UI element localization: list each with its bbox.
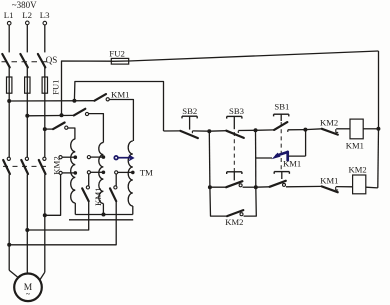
winding3 lower lead xyxy=(132,206,134,215)
contactor KM1 main contact pole3 xyxy=(53,123,68,130)
winding2 lower lead xyxy=(102,204,104,215)
switch QS pole 1 xyxy=(2,54,9,67)
terminal L3 xyxy=(40,10,50,25)
wire phase3 FU1 to KM2 xyxy=(44,93,46,157)
svg-text:~380V: ~380V xyxy=(12,0,37,10)
wire node to SB1 xyxy=(256,129,275,131)
wire SB2-node drop to row2 xyxy=(208,131,211,187)
terminal L2 xyxy=(22,10,32,25)
fuse FU1 pole 1 xyxy=(7,77,12,93)
transformer TM winding 2 xyxy=(99,142,104,203)
wire L2 drop to QS xyxy=(26,25,28,53)
wire phase2 lower xyxy=(26,175,28,274)
wire QS3 to FU1 xyxy=(44,67,46,77)
pushbutton SB1 (NC half) xyxy=(274,102,290,132)
svg-text:KM2: KM2 xyxy=(349,164,367,174)
svg-text:FU2: FU2 xyxy=(109,48,125,58)
svg-text:KM1: KM1 xyxy=(346,141,364,151)
wire KM1 pole1 to winding3 top xyxy=(109,100,133,142)
node row2 mid xyxy=(254,185,258,189)
pushbutton SB3 NO half xyxy=(226,172,242,187)
wire L3 drop to QS xyxy=(44,25,46,53)
wire SB1 to node xyxy=(288,129,306,131)
node phase3 tap xyxy=(43,127,47,131)
wire row2 drop left xyxy=(210,187,227,216)
node control-left tap xyxy=(72,99,76,103)
node right rail KM1 row xyxy=(376,127,380,131)
contactor KM1 tap contact pole1 xyxy=(82,186,89,201)
contactor KM1 main contact pole2 xyxy=(74,109,89,116)
wire phase2 tap to KM1 pole2 xyxy=(27,114,74,116)
wire phase1 tap to KM1 pole1 xyxy=(9,100,94,102)
svg-text:KM2: KM2 xyxy=(225,217,243,227)
fuse FU1 pole 2 xyxy=(25,77,30,93)
wire KM1 tap pole2 to phase1 xyxy=(9,201,116,245)
svg-text:L2: L2 xyxy=(22,10,32,20)
svg-text:L3: L3 xyxy=(40,10,50,20)
wire coil KM2 to right rail xyxy=(366,186,378,189)
node phase1 tap xyxy=(7,99,11,103)
wire control right rail xyxy=(378,51,380,129)
svg-text:SB1: SB1 xyxy=(274,102,289,112)
contact KM2 NC interlock xyxy=(320,118,338,135)
coil KM2 xyxy=(349,164,367,194)
control row1 wire left xyxy=(164,130,181,132)
contact KM1 aux self-hold (blue) xyxy=(256,152,301,169)
wire SB2 to node xyxy=(192,130,209,132)
contact KM2 aux self-hold xyxy=(225,210,243,227)
node TM star xyxy=(102,213,106,217)
svg-text:KM1: KM1 xyxy=(320,176,338,186)
wire SB3-NO to node xyxy=(243,186,256,188)
wire KM1 NC to coil KM2 xyxy=(336,186,353,188)
wire row2 left segment xyxy=(210,186,226,188)
svg-text:KM2: KM2 xyxy=(320,118,338,128)
svg-text:TM: TM xyxy=(140,168,153,178)
node phase3 bottom tap xyxy=(43,213,47,217)
node row2 left xyxy=(208,185,212,189)
tap terminal winding2 lower xyxy=(87,171,105,175)
wire KM2 NC to coil KM1 xyxy=(336,128,350,130)
wire winding1 tap to phase3 xyxy=(45,175,61,216)
KM2 linkage dashed xyxy=(3,165,48,167)
wire node to SB1-NO xyxy=(256,186,270,188)
wire node to KM2 NC xyxy=(305,128,321,131)
pushbutton SB1 NO half xyxy=(270,172,290,187)
pushbutton SB2 (stop) xyxy=(180,106,198,138)
tap terminal winding1 lower xyxy=(59,171,77,175)
wire phase1 FU1 to KM2 xyxy=(8,93,10,157)
contact KM1 NC interlock xyxy=(320,176,338,193)
TM core line xyxy=(69,219,133,221)
wire KM1 pole3 to winding1 top xyxy=(68,128,75,139)
transformer TM winding 1 xyxy=(71,139,76,203)
wire phase2 FU1 to KM2 xyxy=(26,93,28,157)
node phase2 bottom tap xyxy=(25,228,29,232)
svg-text:KM1: KM1 xyxy=(93,187,103,206)
wire FU2 riser xyxy=(62,61,112,115)
wire winding2 tap drop xyxy=(88,174,90,186)
svg-text:FU1: FU1 xyxy=(50,80,60,95)
wire phase1 lower xyxy=(8,175,10,271)
transformer TM winding 3 xyxy=(128,141,133,206)
wire KM1 aux to right riser xyxy=(288,155,305,157)
svg-text:KM1: KM1 xyxy=(111,90,130,100)
svg-text:SB3: SB3 xyxy=(229,106,244,116)
wire KM1 pole2 to winding2 top xyxy=(89,114,104,143)
wire node to SB3 xyxy=(209,130,226,133)
contactor KM2 contact pole2 xyxy=(21,157,28,174)
wire KM2 aux to row2 xyxy=(244,187,257,216)
wire control-left riser xyxy=(74,82,163,132)
contactor KM2 contact pole3 xyxy=(39,157,46,174)
wire L1 drop to QS xyxy=(8,25,10,52)
wire right rail lower xyxy=(377,129,380,188)
blue highlighted winding3 upper tap xyxy=(114,154,134,161)
wire FU2 to right rail xyxy=(129,51,379,61)
motor M xyxy=(14,274,42,302)
pushbutton SB3 (start NC half) xyxy=(226,106,244,138)
tap terminal winding2 upper xyxy=(87,155,105,159)
terminal L1 xyxy=(4,10,14,25)
wire left rail row1 to row2 xyxy=(255,158,257,187)
fuse FU1 pole 3 xyxy=(42,77,47,93)
svg-text:QS: QS xyxy=(46,55,58,65)
SB1 linkage dashed xyxy=(280,122,282,171)
contactor KM1 tap contact pole2 xyxy=(110,186,117,201)
switch QS pole 2 xyxy=(20,54,27,67)
wire riser to row1 xyxy=(305,130,307,157)
node phase1 bottom tap xyxy=(7,243,11,247)
svg-text:SB2: SB2 xyxy=(182,106,197,116)
fuse FU2 xyxy=(111,58,128,64)
SB3 linkage dashed xyxy=(233,132,235,172)
TM star bus xyxy=(75,214,133,216)
winding1 lower lead xyxy=(74,203,76,215)
node before SB1 xyxy=(254,128,258,132)
wire phase3 tap to KM1 pole3 xyxy=(45,128,53,130)
contactor KM1 main contact pole1 xyxy=(95,94,110,101)
switch QS pole 3 xyxy=(38,54,45,67)
wire phase3 lower xyxy=(44,175,46,273)
tap terminal winding1 upper xyxy=(59,155,77,159)
QS linkage dashed xyxy=(2,61,48,63)
wire KM1 tap pole1 to phase2 xyxy=(27,201,88,230)
wire left drop to KM1 aux xyxy=(255,130,257,158)
wire SB1-NO to KM1 NC xyxy=(286,185,322,187)
wire SB3 to node xyxy=(238,129,255,131)
node FU2 tap xyxy=(60,113,64,117)
svg-text:KM1: KM1 xyxy=(283,159,301,169)
svg-text:L1: L1 xyxy=(4,10,14,20)
tap terminal winding3 lower xyxy=(115,171,135,175)
motor M lead 3 xyxy=(40,272,45,279)
svg-text:~: ~ xyxy=(26,290,31,299)
node phase2 tap xyxy=(25,114,29,118)
motor M lead 1 xyxy=(9,270,17,277)
node after SB1 xyxy=(303,128,307,132)
contactor KM2 contact pole1 xyxy=(3,157,10,174)
wire QS2 to FU1 xyxy=(26,67,28,77)
wire coil KM1 to right rail xyxy=(363,128,378,130)
wire QS1 to FU1 xyxy=(8,67,10,77)
node after SB2 xyxy=(207,129,211,133)
coil KM1 xyxy=(346,119,364,151)
wire winding3 tap drop xyxy=(115,174,117,186)
